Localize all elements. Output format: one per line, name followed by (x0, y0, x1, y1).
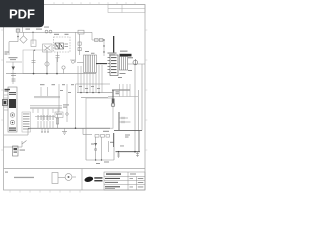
label (118, 70, 132, 78)
label (128, 57, 133, 58)
thermistor TH801 (78, 34, 81, 55)
wire (16, 32, 92, 60)
node N4 (41, 131, 48, 132)
wire (135, 64, 142, 152)
pcb outline box (86, 98, 113, 128)
capacitor C812 (11, 74, 16, 82)
revision table (108, 5, 145, 13)
wire (6, 62, 22, 84)
label (20, 150, 26, 151)
label (55, 112, 63, 118)
capacitor C805 (78, 30, 84, 34)
node N3 (80, 92, 99, 93)
line filter LF801 (54, 37, 71, 52)
wire (116, 151, 141, 153)
node J1 (34, 50, 35, 51)
varistor VA801 (20, 32, 27, 43)
capacitor C810 (32, 50, 36, 74)
transformer T801 (84, 55, 97, 72)
wire (83, 128, 109, 160)
node J2 (32, 32, 33, 33)
label (40, 84, 100, 93)
terminal list TB1 (22, 112, 31, 132)
wire (78, 65, 102, 93)
wire (4, 95, 8, 110)
label CN801 (5, 89, 11, 92)
wire (64, 128, 66, 131)
connector plug P801 (3, 100, 8, 106)
label (85, 51, 95, 54)
diode D801 (16, 29, 20, 37)
wire (112, 89, 130, 91)
wire (76, 84, 114, 98)
transistor Q802 (133, 59, 138, 65)
node N5 (75, 127, 77, 129)
wire (4, 141, 27, 148)
wire (6, 58, 96, 74)
node N7 (95, 159, 102, 160)
legend symbols (52, 173, 76, 184)
node N1 (103, 39, 104, 52)
shield box (23, 50, 47, 74)
transistor Q803 (62, 66, 65, 74)
connector CN801 (8, 87, 17, 132)
capacitor C830 (119, 117, 131, 124)
wire (9, 26, 22, 55)
resistor R820 (56, 114, 58, 128)
label (116, 91, 120, 94)
title block (82, 169, 145, 190)
output box (86, 128, 114, 160)
node N2 (33, 73, 58, 75)
wire (28, 127, 110, 129)
label (38, 115, 54, 120)
transistor Q801 (45, 50, 49, 74)
capacitor C840 (117, 152, 120, 158)
wire (108, 96, 138, 98)
label (108, 51, 128, 56)
transformer T803 (13, 146, 19, 156)
diode D830 (94, 137, 97, 160)
resistor R810 (95, 39, 103, 42)
pin header P1 (38, 121, 53, 128)
IC IC801 (108, 55, 119, 76)
Samsung logo (84, 176, 103, 183)
heatsink HS1 (113, 36, 114, 53)
label (5, 27, 50, 55)
wire (4, 128, 28, 135)
wire (34, 87, 60, 98)
svg-text:PDF: PDF (9, 7, 35, 22)
label (96, 135, 130, 165)
capacitor C807 (56, 52, 60, 62)
diode D803 (12, 67, 16, 71)
relay RY801 (31, 40, 52, 52)
wire (120, 84, 131, 97)
fuse F801 (45, 30, 52, 33)
label (26, 29, 69, 35)
border frame (4, 5, 146, 191)
connector CN803 (120, 54, 132, 57)
wire (118, 112, 120, 130)
wire (114, 129, 142, 131)
capacitor C841 (136, 152, 139, 157)
ground (62, 132, 67, 135)
wire (42, 128, 48, 132)
transformer T802 (120, 57, 128, 71)
wire (77, 62, 84, 64)
label (63, 104, 69, 107)
wire (59, 84, 76, 128)
node N6 (118, 151, 136, 153)
wire (128, 63, 146, 65)
label (9, 57, 18, 60)
connector CN805 (95, 135, 110, 138)
harness wires (30, 106, 62, 121)
wire (113, 133, 115, 147)
notes text (5, 172, 34, 179)
wire (96, 63, 107, 65)
wire (139, 130, 141, 151)
regulator IC802 (111, 90, 115, 107)
wire (137, 90, 139, 152)
wire (70, 32, 104, 63)
PDF badge (0, 0, 44, 27)
label (91, 131, 114, 145)
